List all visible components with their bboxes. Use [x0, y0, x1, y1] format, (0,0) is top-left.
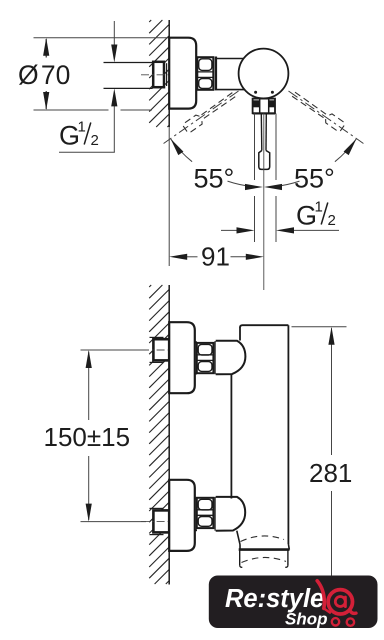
escutcheon flange upper (side view): [169, 322, 195, 393]
ghost lever axis line left 55 deg (dash-dot, extends past grip): [164, 91, 239, 143]
centre line lower connection: [141, 521, 171, 523]
in-wall pipe lines lower connection: [150, 507, 164, 509]
in-wall socket upper (side view): [153, 339, 169, 360]
svg-text:55°: 55°: [194, 164, 235, 194]
G1/2 outlet dimension arrows: [221, 229, 242, 231]
leader line for left G 1/2 label: [59, 151, 115, 153]
outlet taper below lower union: [237, 531, 240, 545]
svg-text:Ø 70: Ø 70: [18, 60, 70, 90]
escutcheon flange (top view): [169, 38, 196, 109]
in-wall socket lower (side view): [153, 510, 169, 532]
ghost lever rotated 55 deg right (dashed): [291, 89, 346, 132]
S-union lower (side view): [214, 497, 216, 531]
wall face extension line down to 91 dimension: [168, 127, 170, 266]
ghost lever rotated 55 deg left (dashed): [182, 91, 237, 134]
in-wall pipe lines upper connection: [150, 336, 164, 338]
svg-text:2: 2: [328, 212, 336, 229]
union nut lower (side view): [195, 498, 214, 530]
dimension 281 line and arrow: [331, 328, 333, 455]
Re:style Shop logo box: [209, 576, 378, 629]
svg-text:55°: 55°: [294, 164, 335, 194]
body cap stub (side view): [239, 327, 241, 341]
svg-text:91: 91: [201, 242, 230, 272]
svg-text:1: 1: [78, 119, 86, 136]
escutcheon flange lower (side view): [169, 480, 195, 551]
union nut (top view): [197, 57, 213, 90]
lever rod: [260, 113, 263, 150]
body left edge: [230, 374, 232, 499]
logo cart wheels: [332, 618, 339, 625]
wall face line (side view): [168, 285, 170, 585]
dimension 91: [183, 256, 198, 258]
svg-text:150±15: 150±15: [44, 422, 131, 452]
hidden edge dashed arc inside outlet: [242, 557, 287, 562]
wall face line (top view): [168, 20, 170, 127]
lever collar: [253, 99, 275, 114]
union nut upper (side view): [195, 342, 214, 373]
hidden edge dashed arc above shoulder: [241, 536, 285, 542]
55 deg dimension arc left: [171, 139, 193, 162]
dimension Ø70 lower arrow: [45, 91, 47, 109]
dimension Ø70 upper arrow: [45, 39, 47, 58]
wall hatching (side view): [149, 285, 169, 584]
shower outlet shoulder: [239, 548, 290, 551]
pipe diameter arrows at G1/2 inlet: [113, 21, 115, 50]
55 deg dimension arc right: [335, 139, 357, 162]
valve body neck (top view): [215, 57, 217, 91]
in-wall socket fitting (top view): [153, 62, 164, 87]
dimension 281 extension line: [292, 326, 347, 328]
wall hatching (top view): [149, 20, 169, 127]
S-union upper (side view): [214, 341, 216, 374]
supply pipe (top view): [104, 62, 153, 64]
outlet extension lines (G1/2 bottom): [254, 114, 256, 181]
shower hose connection tube: [239, 550, 241, 566]
body top edge: [240, 325, 288, 327]
svg-text:2: 2: [91, 132, 99, 149]
handle dome circle (top view): [239, 49, 289, 99]
svg-text:Shop: Shop: [285, 610, 328, 629]
dimension 150±15 extension lines: [81, 349, 147, 351]
dimension Ø70 top extension line: [34, 37, 170, 39]
lever grip: [259, 151, 270, 170]
hot/cold indicator dots: [254, 91, 257, 94]
ghost lever axis line right 55 deg (dash-dot, extends past grip): [288, 91, 363, 143]
svg-text:281: 281: [309, 458, 352, 488]
lever axis centre line: [263, 114, 265, 291]
centre line of inlet (top view): [141, 74, 180, 76]
body right edge: [287, 325, 289, 544]
svg-text:1: 1: [315, 199, 323, 216]
dimension Ø70 bottom extension line: [34, 109, 109, 111]
centre line upper connection: [141, 349, 171, 351]
dimension 150±15 line and arrows: [88, 352, 90, 421]
logo red @ cart symbol: [317, 581, 356, 614]
